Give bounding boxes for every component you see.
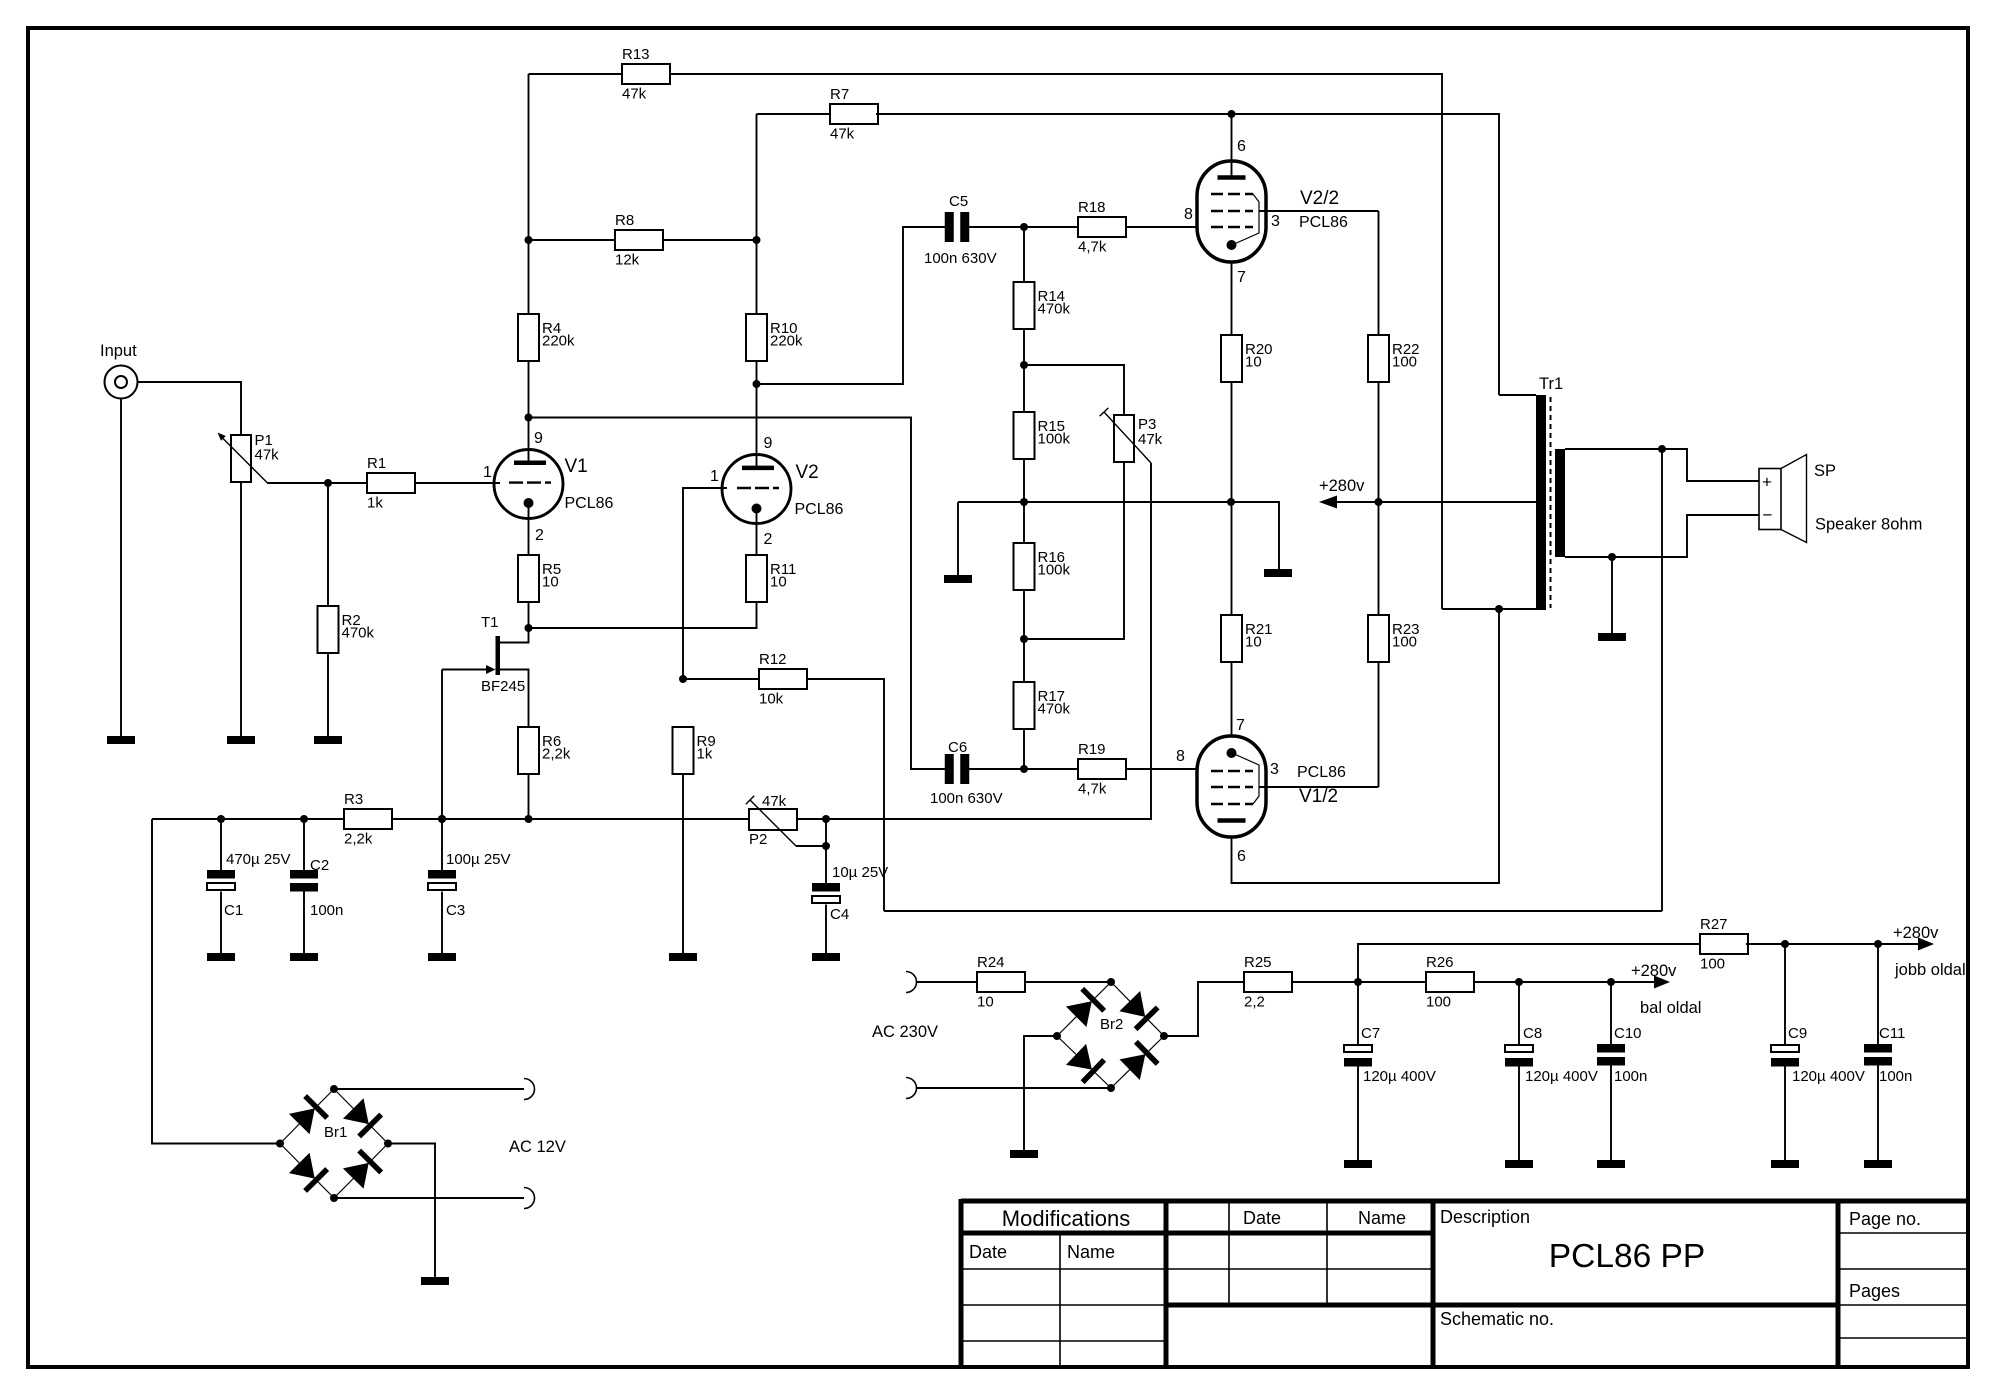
svg-text:Name: Name bbox=[1067, 1242, 1115, 1262]
resistor R15 bbox=[1014, 412, 1071, 459]
svg-text:R8: R8 bbox=[615, 212, 634, 229]
node secondary top / feedback bbox=[1658, 445, 1666, 453]
svg-text:100k: 100k bbox=[1038, 562, 1071, 579]
svg-text:Input: Input bbox=[100, 342, 137, 360]
wire connector to Br2 bottom bbox=[917, 1087, 1112, 1089]
connector AC12V top bbox=[524, 1079, 535, 1100]
wire R18 to V2/2 grid pin 8 bbox=[1125, 206, 1196, 227]
svg-text:Date: Date bbox=[1243, 1208, 1281, 1228]
speaker SP bbox=[1759, 455, 1922, 543]
svg-text:3: 3 bbox=[1270, 761, 1279, 778]
arrow +280v bal oldal bbox=[1631, 962, 1701, 1017]
svg-text:Speaker 8ohm: Speaker 8ohm bbox=[1815, 516, 1922, 534]
svg-text:3: 3 bbox=[1271, 213, 1280, 230]
wire Br1 top to connector bbox=[334, 1088, 524, 1090]
wire R4 top to R8 node bbox=[528, 240, 530, 314]
wire feedback vertical bbox=[1661, 449, 1663, 911]
wire secondary bottom bbox=[1565, 515, 1759, 557]
resistor R25 bbox=[1244, 954, 1292, 1011]
wire R9 bottom to ground bbox=[682, 774, 684, 953]
node P1 wiper / R2 bbox=[324, 479, 332, 487]
transformer Tr1 secondary bbox=[1555, 449, 1565, 557]
label AC 12V bbox=[509, 1138, 566, 1156]
wire V1/2 cathode pin 3 bbox=[1176, 748, 1379, 787]
svg-text:470k: 470k bbox=[1038, 301, 1071, 318]
wire R3 row to Br1 bbox=[152, 819, 280, 1144]
svg-text:Description: Description bbox=[1440, 1207, 1530, 1227]
wire R1 to V1 grid pin 1 bbox=[415, 464, 500, 483]
wire pin3 down to R22 bbox=[1378, 211, 1380, 335]
wire V2 plate pin 9 bbox=[757, 384, 773, 468]
wire T1 gate down to R3 row bbox=[441, 670, 443, 820]
wire P3 wiper down to P2 row bbox=[826, 463, 1151, 819]
connector AC230V top bbox=[906, 972, 917, 993]
wire V2 cathode pin 2 bbox=[757, 509, 773, 556]
wire V1 plate to C6 row bbox=[529, 418, 947, 770]
wire C10 stub bbox=[1610, 982, 1612, 1044]
svg-text:100: 100 bbox=[1426, 994, 1451, 1011]
node secondary bottom / ground bbox=[1608, 553, 1616, 561]
svg-text:2: 2 bbox=[764, 531, 773, 548]
wire V2 plate to C5 row bbox=[757, 227, 947, 384]
wire R22 bottom to tap bbox=[1378, 382, 1380, 502]
svg-text:1: 1 bbox=[483, 464, 492, 481]
capacitor C3 bbox=[428, 851, 511, 919]
svg-text:9: 9 bbox=[534, 430, 543, 447]
resistor R11 bbox=[746, 555, 796, 602]
svg-text:bal oldal: bal oldal bbox=[1640, 999, 1701, 1017]
svg-text:470µ 25V: 470µ 25V bbox=[226, 851, 291, 868]
ground P1 bbox=[227, 736, 255, 744]
svg-text:R12: R12 bbox=[759, 651, 787, 668]
svg-text:1k: 1k bbox=[697, 746, 713, 763]
svg-text:+: + bbox=[1762, 473, 1772, 492]
transformer Tr1 core bbox=[1550, 397, 1552, 608]
svg-text:1: 1 bbox=[710, 468, 719, 485]
title Page no. bbox=[1849, 1209, 1921, 1229]
label AC 230V bbox=[872, 1023, 938, 1041]
ground C7 bbox=[1344, 1160, 1372, 1168]
resistor R1 bbox=[367, 455, 415, 512]
wire node to R15 bbox=[1023, 365, 1025, 412]
svg-text:8: 8 bbox=[1176, 748, 1185, 765]
wire R6 bottom to R3 row bbox=[528, 774, 530, 819]
wire R14 top bbox=[1023, 227, 1025, 282]
wire R8 right to V2 column bbox=[663, 239, 757, 241]
svg-text:C1: C1 bbox=[224, 902, 243, 919]
node C9 top bbox=[1781, 940, 1789, 948]
ground C4 bbox=[812, 953, 840, 961]
svg-text:220k: 220k bbox=[770, 333, 803, 350]
node R8 left bbox=[525, 236, 533, 244]
wire V2 grid pin 1 bbox=[683, 468, 727, 679]
svg-text:PCL86: PCL86 bbox=[1299, 214, 1348, 231]
capacitor C7 bbox=[1344, 1025, 1436, 1085]
node P2 right / C4 bbox=[822, 815, 830, 823]
svg-text:4,7k: 4,7k bbox=[1078, 239, 1107, 256]
svg-text:120µ 400V: 120µ 400V bbox=[1525, 1068, 1598, 1085]
ground C10 bbox=[1597, 1160, 1625, 1168]
title mid Name bbox=[1358, 1208, 1406, 1228]
node P2 wiper / C4 bbox=[822, 842, 830, 850]
node R15 / R16 row bbox=[1020, 498, 1028, 506]
node V1 plate bbox=[525, 414, 533, 422]
svg-text:R24: R24 bbox=[977, 954, 1005, 971]
arrow +280v jobb oldal bbox=[1893, 924, 1966, 979]
svg-text:47k: 47k bbox=[1138, 431, 1163, 448]
wire R11 bottom to cathode row bbox=[529, 602, 757, 628]
svg-text:7: 7 bbox=[1237, 269, 1246, 286]
wire R4 bottom to plate node bbox=[528, 361, 530, 418]
wire C8 to ground bbox=[1518, 1064, 1520, 1160]
resistor R20 bbox=[1221, 335, 1273, 382]
resistor R14 bbox=[1014, 282, 1071, 329]
title Pages bbox=[1849, 1281, 1900, 1301]
input jack bbox=[100, 342, 138, 399]
wire C9 to ground bbox=[1784, 1064, 1786, 1160]
svg-text:SP: SP bbox=[1814, 462, 1836, 480]
svg-text:7: 7 bbox=[1236, 717, 1245, 734]
resistor R19 bbox=[1078, 741, 1126, 798]
svg-text:jobb oldal: jobb oldal bbox=[1894, 961, 1966, 979]
svg-text:100: 100 bbox=[1392, 354, 1417, 371]
wire connector to R24 bbox=[917, 981, 978, 983]
title block grid bbox=[961, 1199, 1968, 1367]
ground C9 bbox=[1771, 1160, 1799, 1168]
wire node to R2 bbox=[327, 483, 329, 606]
svg-text:AC 230V: AC 230V bbox=[872, 1023, 938, 1041]
wire C7 column up to R27 row bbox=[1358, 944, 1700, 982]
wire +280 row left segment bbox=[958, 502, 1279, 569]
svg-text:Modifications: Modifications bbox=[1002, 1206, 1130, 1231]
wire C8 stub bbox=[1518, 982, 1520, 1045]
wire C2 top stub bbox=[303, 819, 305, 870]
wire pin3 up to R23 bbox=[1378, 662, 1380, 787]
transistor T1 BF245 bbox=[442, 614, 529, 727]
pentode V1/2 bbox=[1197, 736, 1346, 837]
resistor R5 bbox=[518, 555, 561, 602]
wire R17 bottom to C6 node bbox=[1023, 729, 1025, 769]
svg-text:47k: 47k bbox=[255, 447, 280, 464]
wire C1 top stub bbox=[220, 819, 222, 870]
ground speaker bbox=[1598, 633, 1626, 641]
ground mid-right bbox=[1264, 569, 1292, 577]
wire R13 row left bbox=[529, 73, 623, 75]
capacitor C5 bbox=[924, 193, 997, 267]
resistor R16 bbox=[1014, 543, 1071, 590]
wire C7 to ground bbox=[1357, 1064, 1359, 1160]
resistor R18 bbox=[1078, 199, 1126, 256]
wire C3 top stub bbox=[441, 819, 443, 870]
node C8 top bbox=[1515, 978, 1523, 986]
wire P1 wiper to R1 bbox=[267, 482, 367, 484]
capacitor C8 bbox=[1505, 1025, 1598, 1085]
wire R12 right to feedback drop bbox=[806, 679, 884, 911]
resistor R7 bbox=[830, 86, 878, 143]
wire R27 right bbox=[1746, 943, 1918, 945]
svg-text:470k: 470k bbox=[342, 625, 375, 642]
svg-text:AC 12V: AC 12V bbox=[509, 1138, 566, 1156]
wire ground stub left bbox=[957, 502, 959, 575]
svg-text:10k: 10k bbox=[759, 691, 784, 708]
wire R24 to Br2 top bbox=[1025, 981, 1111, 983]
svg-text:+280v: +280v bbox=[1893, 924, 1939, 942]
svg-text:470k: 470k bbox=[1038, 701, 1071, 718]
node V2 plate bbox=[753, 380, 761, 388]
node R22 / R23 tap bbox=[1375, 498, 1383, 506]
wire C6 to node bbox=[968, 768, 1024, 770]
node C5 / R14 bbox=[1020, 223, 1028, 231]
title left Name bbox=[1067, 1242, 1115, 1262]
svg-text:Pages: Pages bbox=[1849, 1281, 1900, 1301]
svg-text:C7: C7 bbox=[1361, 1025, 1380, 1042]
svg-text:47k: 47k bbox=[762, 793, 787, 810]
wire R8 left bbox=[529, 239, 616, 241]
triode V2 bbox=[722, 455, 844, 524]
wire P1 bottom to ground bbox=[240, 482, 242, 736]
svg-text:C6: C6 bbox=[948, 739, 967, 756]
wire R26 right bbox=[1474, 981, 1654, 983]
wire R25 to R26 bbox=[1292, 981, 1426, 983]
wire C4 to ground bbox=[825, 905, 827, 954]
capacitor C10 bbox=[1597, 1025, 1647, 1085]
svg-text:8: 8 bbox=[1184, 206, 1193, 223]
potentiometer P3 bbox=[1100, 408, 1163, 463]
svg-text:V1: V1 bbox=[565, 456, 588, 477]
node R8 right bbox=[753, 236, 761, 244]
resistor R2 bbox=[318, 606, 375, 653]
resistor R12 bbox=[759, 651, 807, 708]
svg-text:R18: R18 bbox=[1078, 199, 1106, 216]
node C2 top bbox=[300, 815, 308, 823]
wire R3 row bbox=[152, 818, 344, 820]
capacitor C2 bbox=[290, 857, 343, 919]
capacitor C9 bbox=[1771, 1025, 1865, 1085]
svg-text:100n: 100n bbox=[310, 902, 343, 919]
svg-text:V1/2: V1/2 bbox=[1299, 786, 1338, 807]
wire C9 stub bbox=[1784, 944, 1786, 1045]
svg-text:T1: T1 bbox=[481, 614, 499, 631]
ground C2 bbox=[290, 953, 318, 961]
ground C3 bbox=[428, 953, 456, 961]
capacitor C6 bbox=[930, 739, 1003, 807]
svg-text:1k: 1k bbox=[367, 495, 383, 512]
resistor R9 bbox=[673, 727, 716, 774]
resistor R4 bbox=[518, 314, 575, 361]
arrow +280v bbox=[1319, 477, 1365, 509]
svg-text:10: 10 bbox=[770, 574, 787, 591]
wire P2 to C4 bbox=[797, 819, 826, 883]
svg-text:220k: 220k bbox=[542, 333, 575, 350]
svg-text:10: 10 bbox=[977, 994, 994, 1011]
resistor R27 bbox=[1700, 916, 1748, 973]
wire C11 to ground bbox=[1877, 1065, 1879, 1160]
wire V2/2 plate pin 6 bbox=[1232, 112, 1247, 178]
ground C1 bbox=[207, 953, 235, 961]
svg-text:C2: C2 bbox=[310, 857, 329, 874]
wire input to P1 top bbox=[138, 382, 242, 435]
svg-text:R7: R7 bbox=[830, 86, 849, 103]
resistor R8 bbox=[615, 212, 663, 269]
ground input bbox=[107, 736, 135, 744]
ground Br1 bbox=[421, 1277, 449, 1285]
wire primary bottom feed bbox=[1442, 608, 1536, 610]
wire feedback horizontal bbox=[884, 910, 1662, 912]
svg-text:120µ 400V: 120µ 400V bbox=[1792, 1068, 1865, 1085]
node V2/2 plate on R7 row bbox=[1228, 110, 1236, 118]
wire R15 bottom to +280 row bbox=[1023, 458, 1025, 502]
ground C8 bbox=[1505, 1160, 1533, 1168]
wire C2 to ground bbox=[303, 892, 305, 954]
pentode V2/2 bbox=[1197, 161, 1348, 262]
svg-text:100: 100 bbox=[1700, 956, 1725, 973]
node cathode row / T1 drain bbox=[525, 624, 533, 632]
wire R19 to V1/2 grid pin 8 bbox=[1125, 768, 1196, 770]
wire Br1 bottom to connector bbox=[334, 1197, 524, 1199]
wire V2/2 cathode pin 3 bbox=[1259, 211, 1379, 230]
svg-text:100k: 100k bbox=[1038, 431, 1071, 448]
svg-text:2,2k: 2,2k bbox=[344, 831, 373, 848]
svg-text:Schematic no.: Schematic no. bbox=[1440, 1309, 1554, 1329]
potentiometer P1 bbox=[218, 432, 280, 483]
wire V1/2 pin 7 bbox=[1232, 662, 1246, 736]
svg-text:Page no.: Page no. bbox=[1849, 1209, 1921, 1229]
wire C10 to ground bbox=[1610, 1065, 1612, 1160]
resistor R24 bbox=[977, 954, 1025, 1011]
node R6 bottom bbox=[525, 815, 533, 823]
svg-text:Tr1: Tr1 bbox=[1539, 375, 1563, 393]
svg-text:6: 6 bbox=[1237, 138, 1246, 155]
svg-text:2,2: 2,2 bbox=[1244, 994, 1265, 1011]
wire node up to R13 row bbox=[528, 74, 530, 240]
svg-text:100n: 100n bbox=[1879, 1068, 1912, 1085]
node T1 gate column bbox=[438, 815, 446, 823]
svg-text:6: 6 bbox=[1237, 848, 1246, 865]
svg-text:C11: C11 bbox=[1879, 1025, 1905, 1042]
wire R21 top to tap bbox=[1231, 502, 1233, 615]
svg-text:10µ 25V: 10µ 25V bbox=[832, 864, 888, 881]
resistor R13 bbox=[622, 46, 670, 103]
wire R17 top bbox=[1023, 639, 1025, 682]
wire node to R19 bbox=[1024, 768, 1078, 770]
wire V1/2 plate pin 6 return bbox=[1232, 609, 1500, 883]
svg-text:100n: 100n bbox=[1614, 1068, 1647, 1085]
wire R10 bottom to V2 plate node bbox=[756, 361, 758, 384]
svg-text:R1: R1 bbox=[367, 455, 386, 472]
node C1 top bbox=[217, 815, 225, 823]
wire V2 column R7 drop bbox=[756, 114, 758, 314]
svg-text:C8: C8 bbox=[1523, 1025, 1542, 1042]
svg-text:+280v: +280v bbox=[1631, 962, 1677, 980]
svg-text:+280v: +280v bbox=[1319, 477, 1365, 495]
title PCL86 PP bbox=[1549, 1238, 1705, 1275]
svg-text:PCL86: PCL86 bbox=[795, 501, 844, 518]
node C7 top bbox=[1354, 978, 1362, 986]
svg-text:C5: C5 bbox=[949, 193, 968, 210]
wire input jack to ground bbox=[120, 399, 122, 737]
bridge rectifier Br1 bbox=[276, 1085, 392, 1202]
resistor R22 bbox=[1368, 335, 1420, 382]
wire V1 cathode pin 2 bbox=[529, 503, 545, 555]
ground Br2 bbox=[1010, 1150, 1038, 1158]
resistor R26 bbox=[1426, 954, 1474, 1011]
svg-text:10: 10 bbox=[1245, 634, 1262, 651]
wire R16 bottom to node bbox=[1023, 589, 1025, 639]
svg-text:2: 2 bbox=[535, 527, 544, 544]
connector AC12V bottom bbox=[524, 1188, 535, 1209]
wire C11 stub bbox=[1877, 944, 1879, 1044]
transformer Tr1 primary bbox=[1536, 375, 1563, 610]
node primary bottom / V1-2 plate bbox=[1495, 605, 1503, 613]
wire primary top feed bbox=[1499, 394, 1536, 396]
svg-text:4,7k: 4,7k bbox=[1078, 781, 1107, 798]
svg-text:P2: P2 bbox=[749, 831, 767, 848]
svg-text:R26: R26 bbox=[1426, 954, 1454, 971]
svg-text:100µ 25V: 100µ 25V bbox=[446, 851, 511, 868]
svg-text:PCL86: PCL86 bbox=[1297, 764, 1346, 781]
resistor R10 bbox=[746, 314, 803, 361]
wire R16 top bbox=[1023, 502, 1025, 543]
wire Br2 right to R25 bbox=[1164, 982, 1244, 1036]
svg-text:47k: 47k bbox=[830, 126, 855, 143]
resistor R17 bbox=[1014, 682, 1071, 729]
ground R9 bbox=[669, 953, 697, 961]
wire node to P3 bottom bbox=[1024, 462, 1124, 639]
node R16 / R17 / P3 bottom bbox=[1020, 635, 1028, 643]
ground mid-left bbox=[944, 575, 972, 583]
svg-text:R13: R13 bbox=[622, 46, 650, 63]
title Modifications bbox=[1002, 1206, 1130, 1231]
svg-text:100n 630V: 100n 630V bbox=[924, 250, 997, 267]
bridge rectifier Br2 bbox=[1053, 978, 1168, 1092]
wire C5 to R18 node bbox=[968, 226, 1078, 228]
resistor R3 bbox=[344, 791, 392, 848]
ground C11 bbox=[1864, 1160, 1892, 1168]
wire Br1 right to ground bbox=[388, 1144, 435, 1278]
resistor R23 bbox=[1368, 615, 1420, 662]
capacitor C1 bbox=[207, 851, 291, 919]
svg-text:−: − bbox=[1763, 506, 1773, 525]
svg-text:V2: V2 bbox=[796, 462, 819, 483]
wire R2 to ground bbox=[327, 653, 329, 736]
node C10 top bbox=[1607, 978, 1615, 986]
wire V2/2 pin 7 bbox=[1232, 262, 1247, 335]
svg-text:Br1: Br1 bbox=[324, 1124, 347, 1141]
wire C7 stub bbox=[1357, 982, 1359, 1045]
node C11 top bbox=[1874, 940, 1882, 948]
svg-text:C4: C4 bbox=[830, 906, 849, 923]
connector AC230V bottom bbox=[906, 1078, 917, 1099]
capacitor C11 bbox=[1864, 1025, 1912, 1085]
svg-text:100n 630V: 100n 630V bbox=[930, 790, 1003, 807]
node V2 grid / R9 / R12 bbox=[679, 675, 687, 683]
potentiometer P2 bbox=[746, 793, 826, 848]
title Description bbox=[1440, 1207, 1530, 1227]
ground R2 bbox=[314, 736, 342, 744]
wire R13 to right drop bbox=[670, 74, 1442, 609]
wire node to R12 bbox=[683, 678, 759, 680]
svg-text:Br2: Br2 bbox=[1100, 1016, 1123, 1033]
wire +280v to transformer center bbox=[1337, 501, 1536, 503]
resistor R6 bbox=[518, 727, 571, 774]
triode V1 bbox=[494, 450, 614, 519]
svg-text:R27: R27 bbox=[1700, 916, 1728, 933]
svg-text:100: 100 bbox=[1392, 634, 1417, 651]
wire R7 row left bbox=[757, 113, 831, 115]
node V2/2 cathode-resistor tap bbox=[1227, 498, 1235, 506]
svg-text:PCL86: PCL86 bbox=[565, 495, 614, 512]
svg-text:C9: C9 bbox=[1788, 1025, 1807, 1042]
